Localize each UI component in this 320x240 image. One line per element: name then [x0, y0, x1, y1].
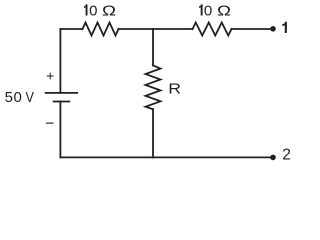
- svg-text:R: R: [168, 80, 181, 96]
- svg-text:0: 0: [89, 2, 97, 19]
- svg-text:50: 50: [5, 89, 23, 106]
- svg-text:Ω: Ω: [217, 2, 231, 19]
- svg-text:+: +: [46, 68, 54, 84]
- wire: top-right segment to terminal 1: [232, 28, 273, 30]
- svg-text:Ω: Ω: [102, 2, 116, 19]
- wire: top middle segment: [119, 28, 193, 30]
- svg-text:0: 0: [204, 2, 212, 19]
- wire: bottom rail to terminal 2: [60, 156, 272, 158]
- battery 50V long plate (+): [46, 92, 78, 94]
- label 1 (custom glyph, no foot serif): [282, 22, 287, 33]
- wire: left rail upper (corner to battery): [59, 29, 61, 93]
- resistor R2 10 ohm zigzag: [193, 23, 232, 36]
- resistor R1 10 ohm zigzag: [83, 23, 119, 36]
- terminal node 2 dot: [270, 155, 276, 161]
- wire: middle node vertical upper: [152, 29, 154, 65]
- label 10 ohm (R1): digit 1: [84, 4, 88, 15]
- battery 50V short plate (-): [54, 101, 70, 103]
- label 10 ohm (R2): digit 1: [199, 4, 203, 15]
- wire: top-left horizontal segment: [60, 28, 82, 30]
- wire: middle node vertical lower: [152, 109, 154, 157]
- svg-text:V: V: [25, 88, 34, 105]
- svg-text:−: −: [45, 116, 54, 133]
- wire: left rail lower (battery to bottom): [59, 102, 61, 158]
- resistor R vertical zigzag: [146, 65, 161, 109]
- terminal node 1 dot: [270, 26, 276, 32]
- svg-text:2: 2: [282, 147, 291, 164]
